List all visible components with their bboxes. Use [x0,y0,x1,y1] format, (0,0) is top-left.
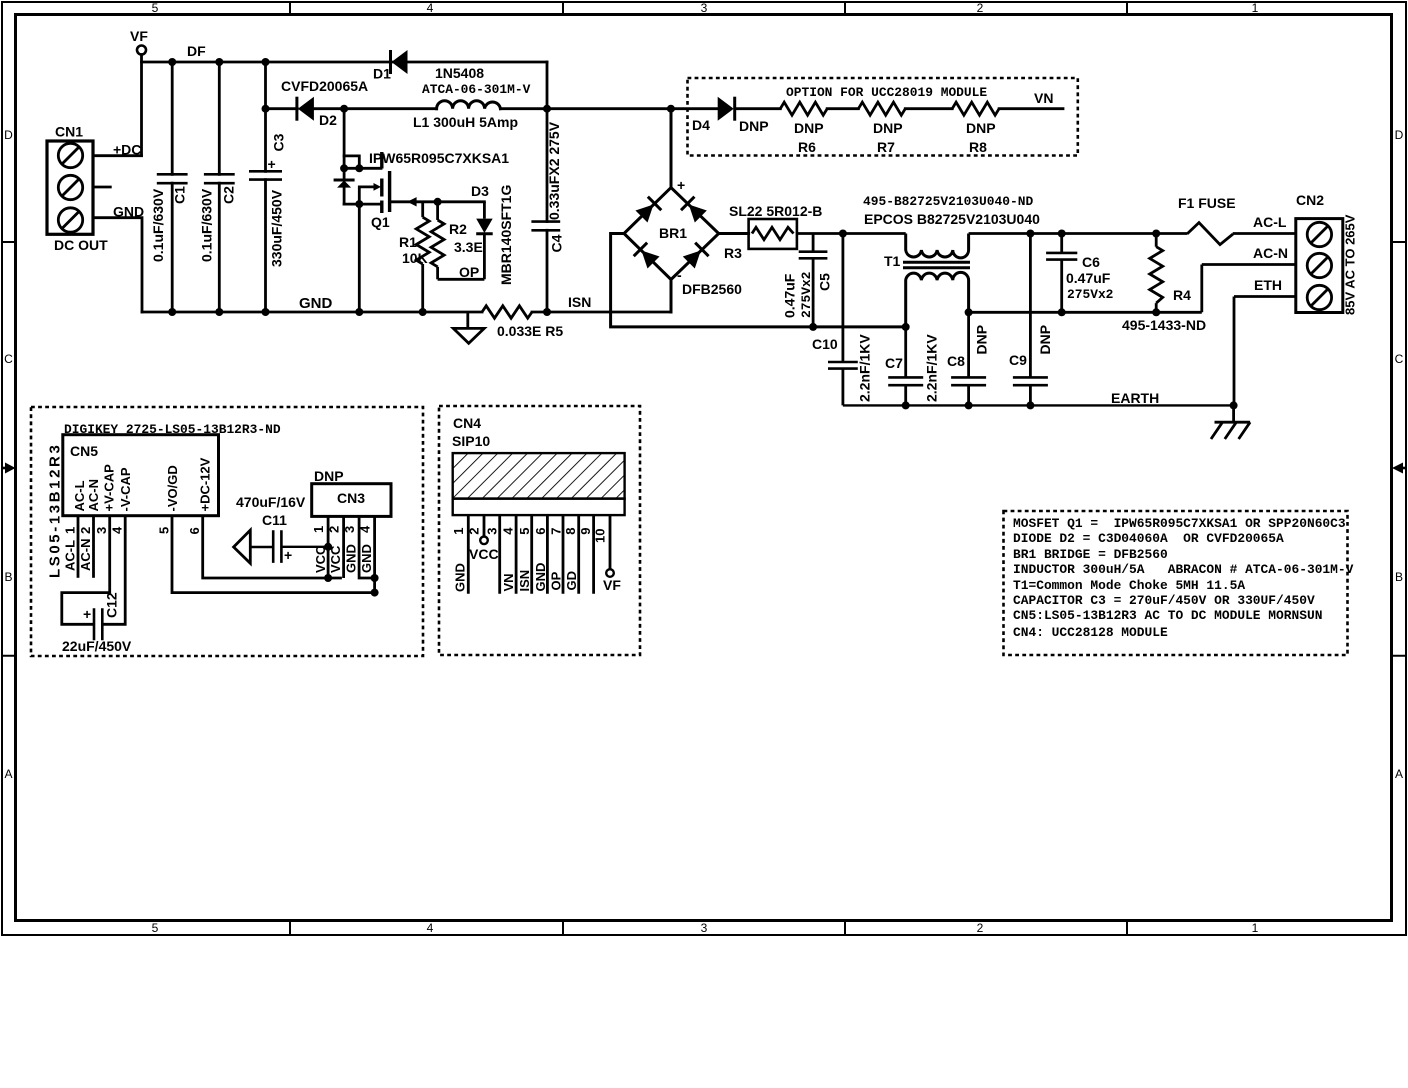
svg-text:0.33uFX2 275V: 0.33uFX2 275V [546,121,562,220]
earth chassis symbol [1211,405,1250,439]
svg-text:EPCOS B82725V2103U040: EPCOS B82725V2103U040 [864,211,1040,227]
svg-text:ISN: ISN [568,294,591,310]
svg-text:2.2nF/1KV: 2.2nF/1KV [857,334,873,402]
node dots CN3 [324,543,379,597]
wire C11 left [250,546,272,548]
ground symbol [453,312,484,343]
capacitor C4 plates [531,222,560,231]
svg-text:DFB2560: DFB2560 [682,281,742,297]
diode BR1-C bottom-left [634,243,661,270]
wire gate lead to R1 R2 D3 [390,200,485,203]
svg-text:330uF/450V: 330uF/450V [269,189,285,267]
svg-text:6: 6 [533,528,548,535]
svg-text:3.3E: 3.3E [454,239,483,255]
svg-text:SIP10: SIP10 [452,433,490,449]
capacitor C4 vertical [546,109,549,312]
svg-text:OPTION FOR UCC28019 MODULE: OPTION FOR UCC28019 MODULE [786,85,987,100]
svg-text:+: + [83,606,91,622]
svg-text:3: 3 [342,526,357,533]
svg-text:C: C [4,352,13,366]
svg-text:275Vx2: 275Vx2 [799,272,814,318]
svg-text:4: 4 [427,1,434,15]
T1 core lines [903,262,970,268]
svg-text:1: 1 [311,526,326,533]
svg-text:F1 FUSE: F1 FUSE [1178,195,1236,211]
wire Q1 drain from rail [343,109,346,169]
svg-text:C10: C10 [812,336,838,352]
wire R3 to T1 [797,232,906,235]
svg-text:470uF/16V: 470uF/16V [236,494,306,510]
resistor R2 3.3E [431,202,484,279]
T1 secondary winding [906,272,969,327]
svg-text:DNP: DNP [314,468,344,484]
svg-text:ETH: ETH [1254,277,1282,293]
wire drain contact [344,167,381,170]
svg-text:CN3: CN3 [337,490,365,506]
wire gate arrowhead [407,197,416,206]
node VF circle pin10 [606,569,614,577]
svg-text:+: + [284,547,292,563]
transistor Q1 body diode triangle [337,180,351,187]
node dots top rail [168,58,176,66]
wire D4 to R6 [735,107,780,110]
resistor R4 [1150,234,1163,313]
svg-text:DNP: DNP [974,325,990,355]
svg-text:5: 5 [157,527,172,534]
svg-text:DNP: DNP [873,120,903,136]
capacitor C3 verticals [264,62,267,312]
capacitor C5 [799,234,828,327]
svg-text:5: 5 [517,528,532,535]
svg-text:3: 3 [94,527,109,534]
svg-text:5: 5 [152,1,159,15]
svg-text:CVFD20065A: CVFD20065A [281,78,368,94]
wire CN3 pin2 stub [342,516,345,578]
svg-text:4: 4 [110,526,125,534]
svg-text:1: 1 [63,527,78,534]
svg-text:R3: R3 [724,245,742,261]
wire body tie with arrow [359,187,373,204]
svg-text:B: B [4,570,12,584]
transistor Q1 channel and gate bars [382,152,390,213]
capacitor C1 plates [157,174,188,183]
diode BR1-B top-right [681,197,708,224]
svg-text:+V-CAP: +V-CAP [101,464,116,512]
svg-text:DNP: DNP [1037,325,1053,355]
capacitor C1 verticals [171,62,174,312]
svg-text:SL22 5R012-B: SL22 5R012-B [729,203,822,219]
module CN5 box [63,435,219,516]
wire CN5 pin2 stub [92,516,95,578]
node dots AC rails [839,230,847,238]
capacitor C11 plates [273,530,281,563]
svg-text:AC-L: AC-L [72,480,87,511]
connector CN4 body hatched [453,453,625,499]
svg-text:R2: R2 [449,221,467,237]
wire R6 to R7 [827,107,858,110]
svg-text:VN: VN [501,573,516,591]
wire D2 branch [266,107,437,110]
svg-text:495-1433-ND: 495-1433-ND [1122,317,1206,333]
wire ETH [1234,297,1296,406]
svg-text:+DC-12V: +DC-12V [198,457,213,511]
diode D4 DNP [718,97,735,121]
svg-text:BR1 BRIDGE = DFB2560: BR1 BRIDGE = DFB2560 [1013,547,1168,562]
svg-text:R1: R1 [399,234,417,250]
transformer T1 [903,234,970,327]
svg-text:D1: D1 [373,66,391,82]
svg-text:3: 3 [485,528,500,535]
wire CN5 pin4 to C12 minus [103,516,125,625]
node dots ground rail [168,308,176,316]
svg-text:GND: GND [299,295,333,312]
svg-text:C11: C11 [262,512,287,528]
wire drain step loop [344,156,359,168]
svg-text:GND: GND [453,563,468,592]
svg-text:+: + [268,156,276,172]
svg-text:DF: DF [187,43,206,59]
svg-text:7: 7 [549,528,564,535]
resistor R8 DNP [952,102,999,115]
svg-text:0.1uF/630V: 0.1uF/630V [150,188,166,262]
wire BR1 plus up to rail [670,109,673,188]
svg-text:CN4: CN4 [453,415,481,431]
capacitor C6 [1046,234,1077,313]
wire OP loop [438,278,485,281]
node VCC circle [480,537,488,545]
svg-text:2: 2 [467,528,482,535]
capacitor C10 [828,234,858,406]
svg-text:IPW65R095C7XKSA1: IPW65R095C7XKSA1 [369,150,509,166]
svg-text:CN5: CN5 [70,443,98,459]
svg-text:AC-L: AC-L [1253,214,1287,230]
diode BR1-A top-left [635,197,662,224]
svg-text:275Vx2: 275Vx2 [1067,287,1113,302]
svg-text:C9: C9 [1009,352,1027,368]
svg-text:OP: OP [549,571,564,590]
svg-text:AC-N: AC-N [78,539,93,572]
svg-text:A: A [4,767,12,781]
svg-text:22uF/450V: 22uF/450V [62,638,132,654]
wire lower rail T1 to AC-N corner [969,311,1202,314]
wire +DC from CN1 [93,154,142,157]
dashed enclosure CN4 [439,406,640,655]
svg-text:Q1: Q1 [371,214,390,230]
svg-text:DNP: DNP [794,120,824,136]
wire CN1 GND pin down to ground rail [93,218,142,312]
diode D2 CVFD20065A [297,97,314,121]
svg-text:R7: R7 [877,139,895,155]
wire CN3 pin4 stub [373,516,376,592]
svg-text:2: 2 [977,1,984,15]
svg-text:BR1: BR1 [659,225,687,241]
svg-text:R6: R6 [798,139,816,155]
svg-text:C4: C4 [549,234,565,252]
svg-text:1: 1 [451,528,466,535]
svg-text:6: 6 [187,527,202,534]
bridge BR1 diamond [624,188,719,280]
svg-text:LS05-13B12R3: LS05-13B12R3 [47,443,64,578]
svg-text:GND: GND [344,544,359,573]
capacitor C9 DNP [1013,234,1048,406]
svg-text:MOSFET Q1 = IPW65R095C7XKSA1: MOSFET Q1 = IPW65R095C7XKSA1 OR SPP20N60… [1013,516,1346,531]
svg-text:VF: VF [130,28,148,44]
svg-text:ISN: ISN [517,570,532,592]
node dots Q1 [340,164,348,172]
wire corner D1 cathode down to L1 output node [546,62,549,109]
resistor R6 DNP [780,102,827,115]
svg-text:0.033E R5: 0.033E R5 [497,323,563,339]
transistor Q1 body diode [343,168,346,180]
svg-text:495-B82725V2103U040-ND: 495-B82725V2103U040-ND [863,194,1033,209]
wire EARTH bottom rail [843,404,1234,406]
dashed enclosure CN5 [31,407,423,656]
connector CN3 box [312,484,391,517]
wire CN5 pin6 to CN3 vcc [203,516,342,578]
wire R7 to R8 [905,107,952,110]
wire BR1 minus down to ISN rail [670,280,673,313]
svg-text:4: 4 [501,527,516,535]
wire source bar [344,203,381,206]
svg-text:10: 10 [593,529,608,543]
diode D3 MBR140SFT1G [476,202,493,279]
svg-text:DIODE D2 = C3D04060A OR CVFD2: DIODE D2 = C3D04060A OR CVFD20065A [1013,531,1284,546]
svg-text:L1 300uH 5Amp: L1 300uH 5Amp [413,114,518,130]
svg-text:8: 8 [563,528,578,535]
svg-text:DNP: DNP [739,118,769,134]
wire R8 to VN end [999,107,1063,110]
resistor R7 DNP [858,102,905,115]
svg-text:C1: C1 [172,186,188,204]
wire CN1 middle stub [93,186,110,189]
capacitor C2 verticals [218,62,221,312]
wire L1 to D4 [500,107,717,110]
capacitor C8 DNP [951,312,986,405]
svg-text:R8: R8 [969,139,987,155]
svg-text:GD: GD [564,571,579,591]
inductor L1 humps [437,101,501,109]
svg-text:B: B [1395,570,1403,584]
resistor R1 10K [416,202,429,312]
svg-text:1N5408: 1N5408 [435,65,484,81]
node dots L1 rail [262,105,270,113]
svg-text:-VO/GD: -VO/GD [165,465,180,511]
svg-text:AC-L: AC-L [63,540,78,571]
resistor R5 0.033E [482,306,532,318]
svg-text:OP: OP [459,264,479,280]
svg-text:C3: C3 [271,133,287,151]
svg-text:GND: GND [113,204,144,220]
resistor R3 SL22 box [749,219,797,249]
wire CN3 pin3 stub [359,516,375,578]
wire CN4 pin stubs [468,515,610,594]
svg-text:0.47uF: 0.47uF [1066,270,1111,286]
svg-text:0.47uF: 0.47uF [782,273,798,318]
wire BR1 left vertex loop to lower AC rail [611,234,906,327]
wire BR1 right vertex to R3 [719,232,749,235]
svg-text:C5: C5 [817,273,833,291]
svg-text:+: + [677,177,685,193]
svg-text:+DC: +DC [113,142,141,158]
svg-text:INDUCTOR 300uH/5A ABRACON #: INDUCTOR 300uH/5A ABRACON # ATCA-06-301M… [1013,562,1354,577]
svg-text:EARTH: EARTH [1111,390,1159,406]
wire node DF top rail [142,61,548,64]
svg-text:GND: GND [359,544,374,573]
svg-text:2: 2 [327,526,342,533]
svg-text:D2: D2 [319,112,337,128]
svg-text:AC-N: AC-N [1253,245,1288,261]
wire top rail T1 to CN2 [969,232,1157,235]
svg-text:D3: D3 [471,183,489,199]
svg-text:5: 5 [152,921,159,935]
svg-text:C: C [1395,352,1404,366]
svg-text:C2: C2 [221,186,237,204]
svg-text:CN2: CN2 [1296,192,1324,208]
node VF vertical to +DC [140,55,143,156]
svg-text:C12: C12 [104,592,120,618]
svg-text:-V-CAP: -V-CAP [118,467,133,511]
fuse F1 [1156,223,1296,245]
diode D1 1N5408 [391,50,408,74]
svg-text:T1: T1 [884,253,901,269]
transistor Q1 arrow into channel [374,183,382,191]
svg-text:ATCA-06-301M-V: ATCA-06-301M-V [422,82,531,97]
diode BR1-D bottom-right [682,243,709,270]
svg-text:VF: VF [603,577,621,593]
svg-text:T1=Common Mode Choke 5MH 11.5A: T1=Common Mode Choke 5MH 11.5A [1013,578,1245,593]
svg-text:10K: 10K [402,250,428,266]
svg-text:CN5:LS05-13B12R3 AC TO DC MODU: CN5:LS05-13B12R3 AC TO DC MODULE MORNSUN [1013,608,1322,623]
svg-text:VCC: VCC [469,546,499,562]
capacitor C7 [888,327,923,406]
fold arrows left/right [2,463,1406,474]
wire C11 to CN3 pin1 [281,546,328,548]
svg-text:4: 4 [427,921,434,935]
svg-text:3: 3 [701,1,708,15]
svg-text:1: 1 [1252,1,1259,15]
svg-text:3: 3 [701,921,708,935]
svg-text:A: A [1395,767,1403,781]
svg-text:1: 1 [1252,921,1259,935]
svg-text:MBR140SFT1G: MBR140SFT1G [498,185,514,285]
svg-text:9: 9 [578,528,593,535]
capacitor C2 plates [204,174,235,183]
wire AC-N [1202,265,1296,313]
svg-text:R4: R4 [1173,287,1191,303]
ground rail GND [142,311,482,314]
svg-text:4: 4 [358,525,373,533]
svg-text:2.2nF/1KV: 2.2nF/1KV [924,334,940,402]
wire CN5 pin5 to CN3 gnd [172,516,375,593]
wire CN5 pin1 stub [77,516,80,578]
svg-text:AC-N: AC-N [86,479,101,512]
node VF circle [137,46,146,55]
svg-text:DC OUT: DC OUT [54,237,108,253]
capacitor C12 plates [94,608,102,640]
svg-text:0.1uF/630V: 0.1uF/630V [199,188,215,262]
svg-text:CN4: UCC28128 MODULE: CN4: UCC28128 MODULE [1013,625,1168,640]
svg-text:CAPACITOR C3 = 270uF/450V OR 3: CAPACITOR C3 = 270uF/450V OR 330UF/450V [1013,593,1315,608]
node dots gate line [434,198,442,206]
svg-text:85V AC TO 265V: 85V AC TO 265V [1343,214,1358,315]
T1 primary winding [906,234,969,258]
svg-text:C6: C6 [1082,254,1100,270]
connector CN2 [1296,219,1343,313]
svg-text:D4: D4 [692,117,710,133]
svg-text:C7: C7 [885,355,903,371]
capacitor C11 triangle plate [234,530,251,563]
svg-text:CN1: CN1 [55,124,83,140]
svg-text:VN: VN [1034,90,1053,106]
svg-text:C8: C8 [947,353,965,369]
wire ISN segment [532,311,671,314]
svg-text:2: 2 [977,921,984,935]
svg-text:D: D [4,128,13,142]
wire CN5 pin3 to C12 plus [62,516,110,625]
svg-text:2: 2 [78,527,93,534]
svg-text:GND: GND [533,563,548,592]
wire Q1 source down to ground rail [358,204,361,312]
wire CN3 pin1 stub [327,516,330,578]
svg-text:D: D [1395,128,1404,142]
svg-text:DNP: DNP [966,120,996,136]
capacitor C3 plates [249,171,282,179]
